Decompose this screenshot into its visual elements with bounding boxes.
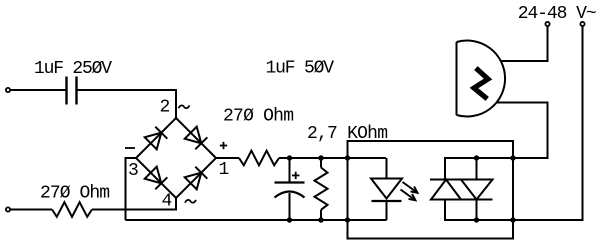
svg-text:1: 1: [219, 160, 230, 180]
junction node A: [287, 155, 292, 160]
triac gate-side vertical: [476, 158, 478, 180]
terminal 24-48V right: [580, 22, 584, 26]
buzzer LS1 body: [457, 41, 506, 117]
resistor R3 2,7 KOhm vertical: [315, 158, 328, 220]
opto-triac module U1 box: [348, 141, 514, 239]
wire node1 to R2: [216, 157, 239, 159]
terminal bottom-left input: [6, 207, 10, 211]
resistor R1 270 Ohm: [52, 202, 92, 217]
triac right triangle: [461, 180, 493, 200]
junction node E: [318, 217, 323, 222]
capacitor C1 1uF 250V: [67, 77, 77, 105]
junction node H: [474, 217, 479, 222]
ac mark at node 2: [179, 105, 190, 108]
wire node3 down to bottom rail: [126, 158, 137, 220]
terminal 24-48V left: [545, 22, 549, 26]
svg-text:1uF 25ØV: 1uF 25ØV: [34, 59, 112, 79]
junction node D: [287, 217, 292, 222]
minus mark at node 3: [125, 147, 135, 149]
junction node F box pin: [345, 217, 350, 222]
diode D4 (node4 to node1): [185, 167, 208, 190]
triac TR1 top rail: [445, 158, 513, 180]
junction node B: [318, 155, 323, 160]
wire terminal to R1: [10, 209, 52, 211]
junction node C box pin: [345, 155, 350, 160]
svg-text:1uF 5ØV: 1uF 5ØV: [266, 59, 335, 79]
capacitor C2 1uF 50V electrolytic: [275, 158, 305, 220]
wire C1 to bridge node 2: [77, 90, 176, 118]
plus mark at C2: [292, 172, 299, 179]
svg-text:27Ø Ohm: 27Ø Ohm: [223, 107, 294, 127]
triac left triangle: [431, 180, 461, 200]
resistor R2 270 Ohm: [239, 151, 279, 166]
wire R2 to opto box: [279, 157, 386, 159]
diode D2 (node2 to node1): [185, 127, 208, 150]
junction node I box pin bottom right: [510, 217, 515, 222]
junction node G: [474, 155, 479, 160]
wire buzzer upper lead to terminal: [500, 27, 548, 62]
triac bottom bar: [430, 199, 493, 201]
svg-text:27Ø Ohm: 27Ø Ohm: [40, 184, 110, 204]
wire buzzer lower lead to box pin: [497, 103, 548, 159]
svg-text:2: 2: [160, 98, 171, 118]
LED light arrow 1: [403, 182, 418, 193]
bottom rail wire: [126, 219, 387, 221]
diode D3 (node3 to node4): [145, 167, 168, 190]
junction node J box pin top right: [510, 155, 515, 160]
bridge rectifier B1 diamond: [136, 118, 216, 198]
LED light arrow 2: [401, 190, 416, 201]
triac apex lead down: [476, 200, 478, 221]
ac mark at node 4: [185, 200, 196, 203]
terminal top-left input: [6, 88, 10, 92]
wire terminal to C1: [10, 89, 66, 91]
triac top bar: [430, 179, 493, 181]
wire box bottom right to terminal: [513, 27, 583, 221]
buzzer ac symbol: [474, 70, 488, 97]
svg-text:24-48 V~: 24-48 V~: [518, 4, 597, 24]
plus mark at node 1: [220, 142, 227, 149]
LED D5: [371, 158, 402, 220]
wire R1 to node 4: [92, 198, 176, 210]
triac bottom rail: [445, 200, 513, 221]
svg-text:3: 3: [128, 161, 139, 181]
diode D1 (node3 to node2): [145, 127, 168, 150]
